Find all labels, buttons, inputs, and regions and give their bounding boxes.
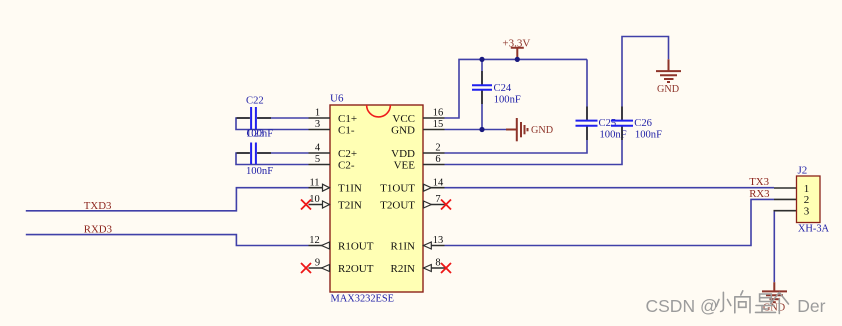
wire C24 branch (481, 59, 483, 129)
no-connect X pin 8 (441, 263, 451, 273)
svg-text:3: 3 (315, 119, 320, 130)
net label TX3 (749, 176, 769, 188)
svg-text:1: 1 (804, 183, 810, 195)
ground symbol GND (top right) (656, 59, 681, 95)
svg-text:C2+: C2+ (338, 148, 357, 160)
svg-text:Der: Der (797, 296, 825, 316)
no-connect X pin 7 (441, 200, 451, 210)
svg-text:MAX3232ESE: MAX3232ESE (331, 293, 395, 304)
wire C2+ loop (pin4 to C23 to pin5) (236, 153, 309, 165)
net label TXD3 (84, 200, 112, 212)
pin 13 R1IN (391, 235, 445, 252)
svg-text:U6: U6 (330, 93, 344, 105)
wire C1+ loop (pin1 to C22 to pin3) (236, 118, 309, 130)
svg-text:RX3: RX3 (749, 188, 769, 200)
svg-text:T2OUT: T2OUT (380, 199, 415, 211)
svg-text:T2IN: T2IN (338, 199, 362, 211)
svg-text:VCC: VCC (392, 113, 415, 125)
svg-text:TX3: TX3 (749, 176, 769, 188)
svg-text:R1OUT: R1OUT (338, 240, 374, 252)
pin 15 GND (391, 119, 444, 136)
svg-text:R2IN: R2IN (391, 263, 416, 275)
svg-text:2: 2 (435, 143, 440, 154)
小 (716, 292, 731, 311)
svg-text:VDD: VDD (391, 148, 415, 160)
wire RXD3 net (26, 235, 309, 246)
svg-text:R1IN: R1IN (391, 240, 416, 252)
svg-text:6: 6 (435, 154, 440, 165)
svg-text:3: 3 (804, 206, 810, 218)
pin 5 C2- (309, 154, 355, 171)
svg-text:100nF: 100nF (635, 129, 662, 140)
svg-text:C24: C24 (494, 83, 512, 94)
pin 2 VDD (391, 143, 444, 160)
capacitor C24 (472, 71, 521, 105)
svg-text:1: 1 (315, 108, 320, 119)
watermark CSDN (646, 291, 826, 316)
wire TXD3 net: horizontal run (26, 188, 309, 211)
svg-text:12: 12 (309, 235, 320, 246)
wire T1OUT (pin14) to J2 pin1 (445, 187, 775, 189)
wire VCC (pin16) to +3.3V rail (445, 59, 588, 118)
svg-text:14: 14 (433, 177, 444, 188)
svg-text:TXD3: TXD3 (84, 200, 112, 212)
svg-text:T1IN: T1IN (338, 183, 362, 195)
svg-text:9: 9 (315, 258, 320, 269)
pin 14 T1OUT (380, 177, 444, 194)
个 (771, 293, 789, 314)
svg-text:16: 16 (433, 108, 444, 119)
svg-text:100nF: 100nF (246, 166, 273, 177)
capacitor C23 (237, 129, 274, 178)
wire GND (pin15) to ground (445, 129, 507, 131)
向 (735, 291, 750, 313)
svg-text:VEE: VEE (394, 159, 416, 171)
svg-text:CSDN @: CSDN @ (646, 296, 718, 316)
svg-text:GND: GND (391, 124, 415, 136)
svg-text:+3.3V: +3.3V (502, 37, 530, 49)
wire J2 pin3 to ground (773, 211, 775, 283)
svg-text:7: 7 (435, 194, 440, 205)
svg-text:T1OUT: T1OUT (380, 183, 415, 195)
svg-text:C1+: C1+ (338, 113, 357, 125)
svg-text:C23: C23 (247, 129, 265, 140)
junction dot pin15/C24 (479, 127, 484, 132)
designator J2 (798, 165, 808, 177)
svg-text:C1-: C1- (338, 124, 355, 136)
svg-text:8: 8 (435, 258, 440, 269)
no-connect X pin 10 (301, 200, 311, 210)
op-amp U6 body (MAX3232ESE) (330, 105, 423, 292)
connector J2 body (797, 176, 821, 223)
pin 6 VEE (394, 154, 445, 171)
svg-text:2: 2 (804, 194, 810, 206)
pin 1 C1+ (309, 108, 358, 125)
pin 7 T2OUT (380, 194, 444, 211)
svg-text:100nF: 100nF (494, 94, 521, 105)
ground symbol GND (sideways, at pin15 net) (506, 118, 553, 141)
ground symbol GND (bottom right) (762, 282, 787, 313)
connector J2 pin stubs (774, 188, 797, 211)
svg-text:XH-3A: XH-3A (798, 224, 830, 235)
pin 16 VCC (392, 108, 444, 125)
pin 10 T2IN (309, 194, 362, 211)
junction dot at +3.3V stem (515, 57, 520, 62)
是 (756, 294, 776, 312)
svg-text:C2-: C2- (338, 159, 355, 171)
wire VDD (pin2) branch through C25 (445, 59, 588, 153)
svg-text:13: 13 (433, 235, 444, 246)
power symbol +3.3V (502, 37, 530, 59)
capacitor C22 (237, 96, 274, 140)
svg-text:5: 5 (315, 154, 320, 165)
svg-text:J2: J2 (798, 165, 808, 177)
svg-text:GND: GND (531, 125, 553, 136)
svg-text:11: 11 (309, 177, 319, 188)
wire VEE (pin6) branch through C26 to ground (445, 37, 669, 165)
value MAX3232ESE (331, 293, 395, 304)
pin 12 R1OUT (309, 235, 374, 252)
pin 11 T1IN (309, 177, 362, 194)
value XH-3A (798, 224, 830, 235)
wire R1IN (pin13) to J2 pin2 (445, 199, 775, 245)
junction dot rail/C24 (479, 57, 484, 62)
no-connect X pin 9 (301, 263, 311, 273)
net label RX3 (749, 188, 769, 200)
svg-text:C22: C22 (246, 96, 264, 107)
designator U6 (330, 93, 344, 105)
svg-text:C26: C26 (634, 118, 652, 129)
svg-text:R2OUT: R2OUT (338, 263, 374, 275)
svg-text:4: 4 (315, 143, 321, 154)
capacitor C26 (611, 107, 662, 141)
svg-text:RXD3: RXD3 (84, 224, 112, 236)
svg-text:15: 15 (433, 119, 444, 130)
pin 8 R2IN (391, 258, 445, 275)
pin 9 R2OUT (309, 258, 374, 275)
pin 4 C2+ (309, 143, 358, 160)
capacitor C25 (576, 107, 627, 141)
svg-text:GND: GND (657, 84, 679, 95)
net label RXD3 (84, 224, 112, 236)
svg-text:10: 10 (309, 194, 320, 205)
pin 3 C1- (309, 119, 355, 136)
